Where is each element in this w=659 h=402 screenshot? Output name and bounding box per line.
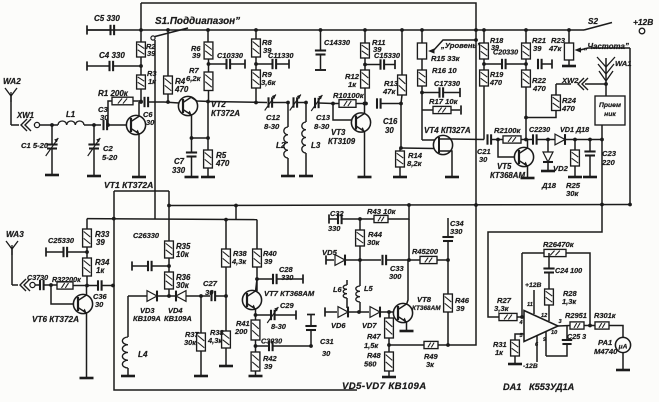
inductor L5: [356, 260, 374, 312]
wire left frame and bottom bus: [114, 191, 357, 390]
svg-text:L6: L6: [333, 285, 343, 294]
inductor L1: [58, 110, 101, 125]
resistor R6 39: [191, 28, 213, 72]
capacitor C20 330: [484, 48, 552, 70]
block Priemnik receiver box: [595, 96, 625, 205]
resistor R35 10k: [165, 241, 191, 272]
svg-text:VT1 КТ372А: VT1 КТ372А: [104, 180, 153, 190]
capacitor C10 330: [209, 51, 246, 69]
svg-text:C10330: C10330: [217, 51, 244, 60]
resistor R43 10k: [360, 203, 411, 222]
capacitor C27 30: [203, 279, 228, 301]
svg-text:5-20: 5-20: [102, 153, 118, 162]
capacitor C1 5-20 variable: [21, 123, 59, 175]
capacitor C29 8-30 variable: [256, 301, 297, 331]
svg-text:1,3к: 1,3к: [562, 297, 577, 306]
svg-text:C1 5-20: C1 5-20: [21, 141, 49, 150]
svg-text:R47: R47: [367, 332, 382, 341]
resistor R7 6.2k: [186, 66, 213, 102]
svg-text:R26470к: R26470к: [543, 240, 575, 249]
capacitor C25 330: [46, 236, 87, 257]
capacitor C21 30: [477, 134, 503, 164]
svg-text:C20330: C20330: [493, 48, 518, 57]
wire detector output to op-amp: [488, 205, 602, 318]
resistor R4 470: [164, 28, 189, 104]
meter PA1 M4740: [594, 337, 631, 370]
capacitor C28 330: [257, 265, 303, 284]
wire tuning bus vertical: [168, 191, 170, 241]
svg-text:10к: 10к: [176, 250, 190, 259]
switch S2: [584, 17, 653, 34]
resistor R2 100k: [494, 126, 533, 143]
varicap VD7: [359, 307, 394, 330]
svg-text:C11330: C11330: [268, 51, 294, 60]
capacitor C36 30: [93, 280, 115, 309]
svg-text:10: 10: [551, 330, 558, 336]
svg-text:VD1 Д18: VD1 Д18: [560, 125, 589, 134]
svg-text:Прием: Прием: [599, 102, 621, 109]
transistor VT2 KT372A: [164, 96, 240, 138]
svg-text:330: 330: [328, 224, 341, 233]
wire R43 to C33 junction: [408, 219, 410, 260]
svg-text:30: 30: [479, 155, 488, 164]
svg-text:30: 30: [146, 118, 155, 127]
connector XW1: [11, 111, 58, 131]
svg-text:4,3к: 4,3к: [231, 257, 247, 266]
resistor R47 1.5k: [364, 312, 393, 352]
resistor R28 1.3k: [545, 289, 578, 321]
svg-text:VT7 КТ368АМ: VT7 КТ368АМ: [264, 289, 315, 298]
svg-text:Д18: Д18: [541, 181, 557, 190]
svg-text:S2: S2: [588, 17, 598, 26]
capacitor C2 5-20 variable: [87, 123, 118, 176]
capacitor C4 330: [87, 51, 143, 75]
wire left branch column: [140, 3, 142, 42]
svg-text:30к: 30к: [367, 238, 380, 247]
svg-text:DA1: DA1: [503, 382, 521, 392]
resistor R2 39: [137, 42, 157, 58]
svg-text:330: 330: [450, 227, 463, 236]
switch S1 Poddiapazon: [151, 16, 240, 219]
antenna WA3: [6, 230, 24, 285]
svg-text:470: 470: [174, 85, 189, 94]
varicap VD6: [325, 307, 361, 330]
svg-text:WA1: WA1: [615, 59, 632, 68]
varicap VD5: [322, 248, 381, 265]
varicap VD3 KV109A: [128, 291, 169, 323]
svg-text:R2100к: R2100к: [494, 126, 522, 135]
capacitor C25 3: [546, 326, 586, 357]
capacitor C12 8-30 variable: [264, 95, 288, 132]
capacitor C24 100: [543, 253, 582, 289]
svg-text:11: 11: [527, 302, 533, 308]
wire tuning feed right: [629, 48, 631, 205]
svg-text:39: 39: [456, 304, 465, 313]
potentiometer R15 33k Uroven: [417, 28, 481, 63]
svg-text:8-30: 8-30: [271, 322, 287, 331]
capacitor C22 30: [529, 125, 550, 145]
svg-text:30: 30: [95, 300, 104, 309]
svg-text:R16 10: R16 10: [432, 66, 457, 75]
svg-text:39: 39: [96, 238, 105, 247]
svg-text:30: 30: [322, 349, 331, 358]
resistor R3 1k: [137, 69, 158, 104]
svg-text:„Частота”: „Частота”: [583, 42, 629, 51]
inductor L6: [333, 280, 347, 308]
svg-text:R10100к: R10100к: [333, 91, 365, 100]
transistor VT3 KT3109: [328, 102, 372, 177]
svg-text:VT5: VT5: [497, 162, 512, 171]
resistor R38 4.3k: [222, 204, 248, 296]
resistor R45 200: [412, 247, 450, 264]
svg-text:КВ109А: КВ109А: [164, 314, 192, 323]
resistor R48 560: [364, 351, 396, 377]
resistor R49 3k: [389, 341, 448, 369]
variable capacitor trimmer: [290, 95, 306, 111]
resistor R17 10k: [422, 93, 461, 141]
resistor R9 3.6k: [252, 70, 277, 104]
antenna WA1: [597, 57, 632, 96]
capacitor C3 30: [98, 105, 127, 130]
svg-text:470: 470: [561, 104, 575, 113]
resistor R24 470: [526, 84, 577, 118]
svg-text:C26330: C26330: [133, 231, 160, 240]
svg-text:L3: L3: [311, 141, 321, 150]
capacitor C6 30: [143, 97, 164, 127]
potentiometer R23 47k Chastota: [548, 28, 630, 66]
resistor R27 3.3k: [494, 296, 524, 321]
wire top supply line: [141, 3, 476, 30]
svg-text:C31: C31: [320, 337, 334, 346]
svg-text:8,2к: 8,2к: [407, 159, 423, 168]
svg-text:WA3: WA3: [6, 230, 24, 239]
svg-text:М4740: М4740: [594, 347, 618, 356]
svg-text:8-30: 8-30: [264, 122, 280, 131]
svg-text:VD7: VD7: [362, 321, 377, 330]
svg-text:C7: C7: [174, 157, 185, 166]
svg-text:C2230: C2230: [529, 125, 550, 134]
varicap VD4 KV109A: [164, 291, 210, 323]
svg-text:330: 330: [172, 166, 186, 175]
svg-text:39: 39: [264, 257, 273, 266]
svg-text:1,5к: 1,5к: [364, 341, 379, 350]
svg-text:330: 330: [281, 273, 294, 282]
diode VD1 D18: [548, 125, 604, 145]
svg-text:C15330: C15330: [374, 51, 401, 60]
capacitor C11 330: [256, 51, 294, 69]
resistor R32 200k: [52, 275, 98, 289]
capacitor C5 330: [87, 14, 143, 35]
wire S1 bus jog: [114, 190, 169, 192]
op-amp DA1 K553UD1A: [519, 282, 563, 370]
svg-text:+12В: +12В: [525, 282, 542, 289]
wire varicap tuning bus horizontal: [169, 205, 630, 206]
svg-text:КТ368АМ: КТ368АМ: [412, 305, 441, 312]
transistor VT5 KT368AM: [490, 140, 535, 181]
svg-text:470: 470: [215, 159, 230, 168]
resistor R21 39: [522, 28, 546, 70]
svg-text:C3730: C3730: [27, 273, 48, 282]
antenna WA2: [3, 77, 21, 125]
wire right column to R49: [448, 30, 476, 345]
svg-text:3,3к: 3,3к: [494, 304, 510, 313]
svg-text:30: 30: [205, 288, 214, 297]
svg-text:39: 39: [533, 44, 542, 53]
svg-text:C12: C12: [266, 113, 281, 122]
svg-text:C4 330: C4 330: [99, 51, 125, 60]
svg-text:WA2: WA2: [3, 77, 21, 86]
svg-text:XW1: XW1: [16, 111, 34, 120]
connector XW3: [12, 279, 35, 291]
capacitor C37 30: [27, 273, 57, 290]
svg-text:VD5-VD7 КВ109А: VD5-VD7 КВ109А: [342, 381, 427, 392]
resistor R8 39: [252, 28, 273, 70]
capacitor C33 300: [383, 255, 421, 281]
resistor R14 8.2k: [393, 104, 423, 178]
resistor R30 1k: [594, 311, 623, 338]
resistor R46 39: [444, 260, 470, 347]
svg-text:PA1: PA1: [598, 338, 612, 347]
inductor L3: [299, 101, 321, 176]
svg-text:47к: 47к: [382, 87, 396, 96]
resistor R31 1k: [493, 334, 524, 364]
svg-text:12: 12: [541, 313, 548, 319]
svg-text:C13: C13: [316, 113, 331, 122]
svg-text:1к: 1к: [495, 348, 504, 357]
svg-text:470: 470: [532, 84, 546, 93]
wire base feed line: [87, 219, 257, 220]
svg-text:C24 100: C24 100: [555, 266, 582, 275]
svg-text:VD6: VD6: [331, 321, 346, 330]
capacitor C13 8-30 variable: [311, 95, 333, 131]
resistor R5 470: [192, 100, 230, 177]
diode VD2 D18: [541, 140, 569, 191]
svg-text:VT3: VT3: [331, 128, 346, 137]
svg-text:C16: C16: [383, 117, 398, 126]
wire upper feed to VT6 stage: [86, 219, 88, 229]
svg-text:C5 330: C5 330: [94, 14, 120, 23]
resistor R37 30k: [184, 294, 208, 376]
svg-text:300: 300: [389, 272, 402, 281]
resistor R40 39: [253, 220, 278, 291]
svg-text:1к: 1к: [148, 77, 157, 86]
capacitor C34 330: [442, 218, 464, 260]
svg-text:47к: 47к: [548, 44, 562, 53]
resistor R33 39: [83, 229, 110, 258]
svg-text:μА: μА: [618, 344, 628, 351]
svg-text:30к: 30к: [184, 338, 197, 347]
resistor R42 39: [249, 352, 278, 376]
capacitor C17 330: [422, 79, 461, 98]
resistor R34 1k: [83, 258, 110, 286]
svg-text:VT8: VT8: [417, 295, 432, 304]
resistor R36 30k: [165, 272, 191, 298]
svg-text:3,6к: 3,6к: [261, 78, 277, 87]
inductor L4: [121, 296, 148, 376]
svg-text:R2951: R2951: [565, 311, 587, 320]
svg-text:КТ372А: КТ372А: [211, 109, 240, 118]
svg-text:R15 33к: R15 33к: [431, 54, 461, 63]
resistor R13 47k: [382, 28, 406, 103]
resistor R22 470: [522, 70, 547, 141]
svg-text:R301к: R301к: [594, 311, 617, 320]
resistor R1 200k: [98, 89, 143, 127]
svg-text:39: 39: [264, 362, 273, 371]
resistor R29 51: [558, 311, 595, 329]
svg-text:C29: C29: [280, 301, 295, 310]
svg-text:VT4 КП327А: VT4 КП327А: [424, 126, 471, 135]
svg-text:S1.Поддиапазон”: S1.Поддиапазон”: [155, 16, 240, 27]
svg-text:L2: L2: [276, 141, 286, 150]
svg-text:R17 10к: R17 10к: [429, 97, 459, 106]
svg-text:C2: C2: [103, 144, 114, 153]
capacitor C15 330: [365, 51, 401, 70]
capacitor C7 330: [172, 136, 199, 177]
resistor R19 470: [480, 70, 504, 140]
svg-text:C27: C27: [203, 279, 218, 288]
svg-text:„Уровень”: „Уровень”: [440, 41, 481, 50]
svg-text:560: 560: [364, 360, 377, 369]
svg-text:220: 220: [601, 158, 615, 167]
svg-text:200: 200: [234, 327, 248, 336]
svg-text:VT6 КТ372А: VT6 КТ372А: [32, 315, 79, 324]
svg-text:C25330: C25330: [48, 236, 75, 245]
svg-text:R45200: R45200: [412, 247, 439, 256]
resistor R44 30k: [356, 219, 383, 262]
connector XW2: [556, 76, 608, 90]
svg-text:1к: 1к: [96, 266, 105, 275]
resistor R10 100k: [331, 91, 368, 107]
wire +12V rail: [87, 29, 584, 31]
resistor R16 10: [418, 59, 458, 94]
svg-text:КВ109А: КВ109А: [133, 314, 161, 323]
transistor VT4 KP327A field-effect: [401, 126, 484, 177]
resistor R11 39: [361, 28, 386, 70]
svg-text:К553УД1А: К553УД1А: [529, 382, 574, 392]
resistor R18 39: [480, 28, 504, 70]
svg-text:8-30: 8-30: [314, 122, 330, 131]
svg-text:3к: 3к: [426, 360, 435, 369]
svg-text:30к: 30к: [176, 281, 190, 290]
capacitor C16 30: [377, 98, 403, 135]
svg-text:L4: L4: [138, 350, 148, 359]
resistor R41 200: [234, 319, 260, 352]
svg-text:C14330: C14330: [324, 38, 351, 47]
svg-text:30к: 30к: [566, 189, 579, 198]
svg-text:1к: 1к: [348, 80, 357, 89]
svg-text:L5: L5: [364, 284, 374, 293]
svg-text:VD2: VD2: [553, 164, 569, 173]
svg-text:C17330: C17330: [434, 79, 461, 88]
svg-text:+12В: +12В: [633, 17, 653, 27]
capacitor C14 330: [315, 28, 351, 70]
svg-text:39: 39: [192, 51, 201, 60]
capacitor C23 220: [583, 138, 617, 177]
svg-text:КТ3109: КТ3109: [328, 137, 356, 146]
svg-text:C23: C23: [602, 149, 617, 158]
resistor R25 30k: [566, 138, 582, 198]
svg-text:R43 10к: R43 10к: [367, 207, 397, 216]
feedback resistor R26 470k: [520, 240, 590, 326]
svg-text:ник: ник: [604, 111, 616, 118]
label DA1 K553UD1A: [503, 382, 574, 392]
svg-text:4,3к: 4,3к: [207, 336, 223, 345]
svg-text:470: 470: [489, 78, 502, 87]
resistor R39 4.3k lower: [207, 296, 233, 366]
svg-text:-12В: -12В: [523, 363, 538, 370]
transistor VT1 KT372A: [104, 102, 153, 190]
resistor R12 1k: [345, 70, 369, 104]
svg-text:КТ368АМ: КТ368АМ: [490, 171, 525, 180]
capacitor C26 330: [132, 231, 169, 271]
capacitor C30 30: [256, 337, 313, 352]
capacitor C31 30: [305, 315, 333, 359]
svg-text:30: 30: [385, 126, 394, 135]
capacitor C32 330: [328, 209, 362, 233]
inductor L2: [276, 101, 295, 176]
transistor VT8 KT368AM: [393, 260, 441, 331]
svg-text:L1: L1: [66, 110, 75, 119]
transistor VT6 KT372A: [32, 286, 94, 379]
wire collector bus VT2-VT3: [210, 102, 267, 103]
transistor VT7 KT368AM: [242, 279, 314, 320]
svg-text:6,2к: 6,2к: [186, 74, 202, 83]
